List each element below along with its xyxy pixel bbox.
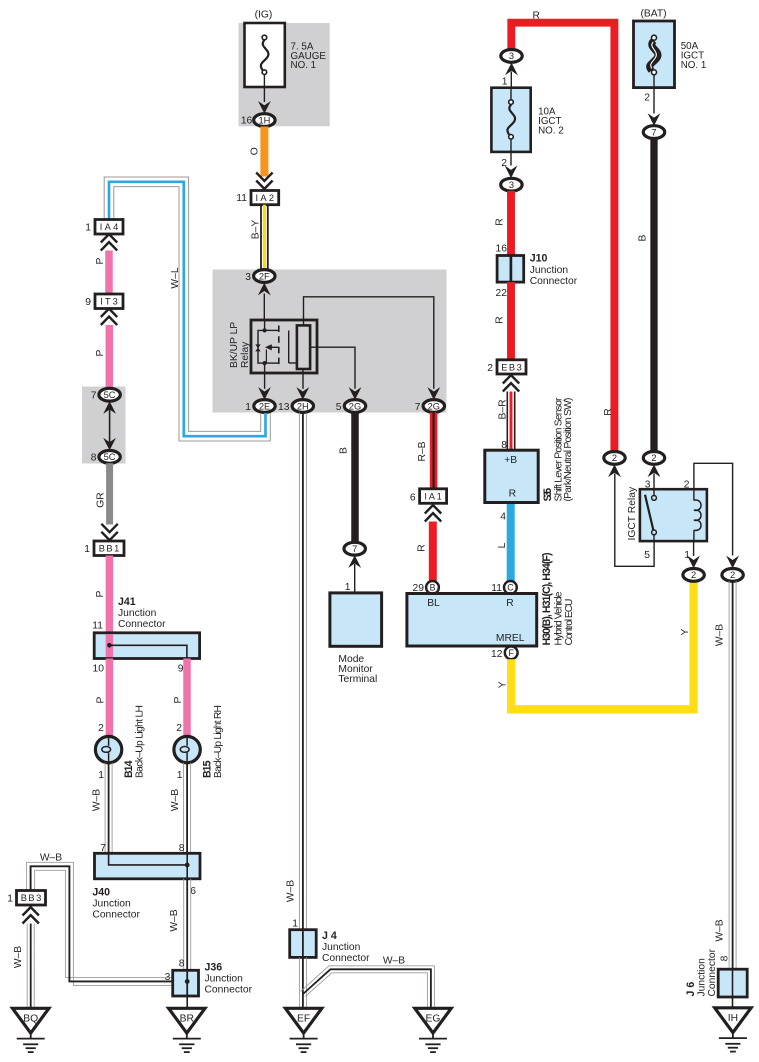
svg-text:5C: 5C <box>104 452 116 462</box>
wire: relay coil bottom to 2H <box>302 369 304 389</box>
svg-text:BQ: BQ <box>23 1013 38 1024</box>
svg-text:B: B <box>339 447 350 454</box>
fuse F2 10A IGCT NO.2 <box>491 88 530 166</box>
connector EB3 <box>497 360 526 374</box>
wire: pink P (IT3 to 5C) <box>106 325 114 388</box>
svg-text:J40: J40 <box>92 887 110 899</box>
wire: W-L (IA4 to 2E) <box>104 177 270 441</box>
svg-text:1: 1 <box>84 544 90 555</box>
svg-text:BL: BL <box>427 598 440 609</box>
svg-text:C: C <box>507 583 514 593</box>
svg-text:P: P <box>173 696 184 703</box>
connector oval 2 (red) <box>604 452 625 465</box>
svg-text:2: 2 <box>730 570 735 580</box>
gray panel: BK/UP LP relay block <box>213 270 447 413</box>
connector oval 2F <box>254 270 275 283</box>
Hybrid Vehicle Control ECU box <box>407 594 537 647</box>
svg-text:R: R <box>495 218 506 225</box>
gray panel: 5C connector block <box>82 387 126 464</box>
svg-text:7: 7 <box>415 402 421 413</box>
svg-text:L: L <box>497 542 508 548</box>
wire: pink P (J41 to B15) <box>183 659 191 737</box>
svg-text:1: 1 <box>292 919 298 930</box>
svg-text:F: F <box>509 648 515 658</box>
junction connector J4 <box>290 930 317 958</box>
svg-text:Control ECU: Control ECU <box>564 599 575 646</box>
svg-text:EG: EG <box>426 1013 441 1024</box>
svg-text:3: 3 <box>509 180 514 190</box>
svg-text:W–B: W–B <box>715 919 726 941</box>
wire: black B (2G pin5 to mode monitor) <box>351 413 359 543</box>
connector oval 5C top <box>99 388 120 401</box>
svg-text:Hybrid Vehicle: Hybrid Vehicle <box>553 591 564 645</box>
wire: oval2 to IGCT relay pin3 <box>653 474 655 498</box>
connector IA1 <box>420 489 447 504</box>
connector BB1 <box>94 541 124 556</box>
svg-text:Connector: Connector <box>530 276 578 287</box>
wire: fusible link output lead <box>653 75 655 114</box>
svg-text:3: 3 <box>509 51 514 61</box>
ground BQ <box>13 1008 49 1052</box>
svg-text:8: 8 <box>720 955 731 961</box>
svg-text:9: 9 <box>85 297 91 308</box>
svg-text:GR: GR <box>96 492 107 507</box>
wire: gray GR (5C to BB1) <box>106 463 113 524</box>
svg-text:1: 1 <box>245 402 251 413</box>
ECU pin circle C <box>504 581 517 594</box>
svg-text:BK/UP LP: BK/UP LP <box>229 322 240 368</box>
junction connector J6 <box>718 969 747 997</box>
svg-text:2H: 2H <box>297 401 309 411</box>
svg-text:Back–Up Light LH: Back–Up Light LH <box>134 705 145 778</box>
svg-text:R: R <box>506 598 513 609</box>
svg-text:16: 16 <box>496 243 508 254</box>
svg-text:5: 5 <box>644 550 650 561</box>
fuse F1 7.5A GAUGE NO.1 <box>245 23 285 87</box>
svg-text:W–B: W–B <box>169 909 180 931</box>
svg-text:J36: J36 <box>205 962 223 974</box>
wire: W-B (2H to J4) <box>299 413 306 930</box>
svg-text:2F: 2F <box>259 271 270 281</box>
svg-text:1: 1 <box>345 582 351 593</box>
svg-text:1: 1 <box>177 770 183 781</box>
svg-text:5: 5 <box>336 402 342 413</box>
wire: B-R (EB3 to S35) <box>507 392 514 451</box>
svg-text:B: B <box>638 234 649 241</box>
svg-text:10: 10 <box>93 664 105 675</box>
connector oval 2 (W-B) <box>722 569 743 582</box>
svg-text:Terminal: Terminal <box>338 674 377 685</box>
svg-text:R: R <box>417 544 428 551</box>
svg-text:Connector: Connector <box>322 953 370 964</box>
ground EG <box>415 1008 451 1052</box>
svg-text:8: 8 <box>91 453 97 464</box>
wire: W-B (J4 to ground EF) <box>299 957 306 1008</box>
wire: W-B (BB3 to J36) <box>27 862 173 985</box>
svg-text:W–L: W–L <box>170 267 181 288</box>
wire: pink P (IA4 to IT3) <box>105 251 113 295</box>
wire: relay pin1 to yellow oval2 <box>693 541 695 556</box>
svg-text:(Park/Neutral Position SW): (Park/Neutral Position SW) <box>563 398 574 502</box>
svg-text:BB3: BB3 <box>21 893 42 903</box>
svg-text:W–B: W–B <box>170 789 181 811</box>
svg-text:Junction: Junction <box>118 608 157 619</box>
svg-text:R: R <box>533 10 540 21</box>
svg-text:6: 6 <box>190 886 196 897</box>
connector oval 2 (black) <box>643 452 664 465</box>
ECU pin circle F <box>505 646 518 659</box>
svg-text:2: 2 <box>691 570 696 580</box>
svg-text:9: 9 <box>178 664 184 675</box>
svg-text:O: O <box>250 147 261 155</box>
svg-text:P: P <box>96 696 107 703</box>
connector oval 1H <box>254 114 275 127</box>
svg-text:H30(B), H31(C), H34(F): H30(B), H31(C), H34(F) <box>541 553 553 646</box>
svg-text:11: 11 <box>92 620 103 631</box>
svg-text:Relay: Relay <box>240 341 251 368</box>
fusible link 50A IGCT NO.1 <box>634 21 675 88</box>
wire: pink P (BB1 to J41) <box>106 556 114 633</box>
svg-text:MREL: MREL <box>496 633 525 644</box>
svg-text:W–B: W–B <box>286 880 297 902</box>
IGCT relay coil <box>694 489 701 541</box>
svg-text:2: 2 <box>684 479 690 490</box>
svg-text:+B: +B <box>504 455 517 466</box>
bulb B15 Back-Up Light RH <box>174 736 200 762</box>
connector oval 7 <box>643 126 664 139</box>
svg-text:(IG): (IG) <box>255 10 273 21</box>
wire: relay pin2 to W-B oval2 <box>694 463 733 555</box>
svg-text:B–R: B–R <box>498 399 509 419</box>
svg-text:3: 3 <box>245 272 251 283</box>
wire: black B (oval7 to IGCT relay) <box>650 139 657 452</box>
wire: relay coil right to 2G(5) <box>310 347 355 389</box>
svg-text:P: P <box>95 257 106 264</box>
svg-text:Connector: Connector <box>205 985 253 996</box>
junction connector J36 <box>173 970 199 996</box>
svg-text:P: P <box>95 590 106 597</box>
svg-text:Junction: Junction <box>205 974 244 985</box>
junction connector J41 <box>94 633 199 659</box>
svg-text:6: 6 <box>410 492 416 503</box>
svg-text:BB1: BB1 <box>99 544 120 554</box>
svg-text:Y: Y <box>680 628 691 635</box>
svg-text:NO. 2: NO. 2 <box>538 126 564 137</box>
svg-text:P: P <box>95 349 106 356</box>
wire: red R (IA1 to ECU pin29) <box>429 522 437 582</box>
ground IH <box>715 1008 751 1052</box>
gray panel: IG fuse block <box>239 23 330 126</box>
svg-text:S35: S35 <box>542 488 554 502</box>
svg-text:2: 2 <box>98 723 104 734</box>
svg-text:2G: 2G <box>428 401 440 411</box>
svg-text:2: 2 <box>176 723 182 734</box>
svg-text:16: 16 <box>241 116 253 127</box>
connector oval 3 top <box>501 50 522 63</box>
connector IA4 <box>95 220 123 235</box>
svg-text:Junction: Junction <box>322 942 361 953</box>
svg-text:B14: B14 <box>123 760 135 778</box>
svg-text:W–B: W–B <box>40 852 62 863</box>
svg-text:2: 2 <box>651 453 656 463</box>
wire: W-B (J40 to J36) <box>184 879 191 970</box>
svg-text:W–B: W–B <box>13 946 24 968</box>
Mode Monitor Terminal box <box>330 593 382 646</box>
wire: red R (oval3 to J10) <box>507 191 515 256</box>
ground BR <box>169 1008 205 1052</box>
svg-text:R: R <box>495 316 506 323</box>
wire: W-B (oval2 to J6) <box>729 581 736 969</box>
svg-text:NO. 1: NO. 1 <box>681 60 707 71</box>
svg-text:R: R <box>603 408 614 415</box>
svg-text:R–B: R–B <box>417 441 428 461</box>
ECU pin circle B <box>426 581 439 594</box>
svg-text:1: 1 <box>7 894 13 905</box>
svg-text:EF: EF <box>297 1013 310 1024</box>
connector oval 2 (yellow) <box>683 569 704 582</box>
BK/UP LP relay R1 <box>251 320 317 373</box>
svg-text:BR: BR <box>180 1013 194 1024</box>
wire: B-Y (IA2 to 2F) <box>261 205 268 270</box>
svg-text:7: 7 <box>651 127 656 137</box>
svg-text:Junction: Junction <box>92 899 131 910</box>
svg-text:J10: J10 <box>530 253 548 265</box>
wire: yellow Y (ECU MREL to IGCT relay pin1) <box>511 581 693 709</box>
svg-text:J 4: J 4 <box>322 930 337 942</box>
svg-text:Y: Y <box>498 681 509 688</box>
S35 Shift Lever Position Sensor box <box>485 450 538 502</box>
svg-text:8: 8 <box>179 958 185 969</box>
connector IT3 <box>95 294 123 309</box>
svg-text:Connector: Connector <box>92 910 140 921</box>
svg-text:11: 11 <box>236 193 247 204</box>
svg-text:1H: 1H <box>258 115 270 125</box>
connector oval 2G pin7 <box>423 400 444 413</box>
connector oval 2G pin5 <box>344 400 365 413</box>
junction connector J40 <box>95 853 201 879</box>
junction connector J10 <box>497 256 524 283</box>
svg-text:J41: J41 <box>118 596 136 608</box>
svg-text:5C: 5C <box>104 390 116 400</box>
svg-text:1: 1 <box>85 222 91 233</box>
svg-text:7: 7 <box>91 390 97 401</box>
wire: orange O (1H to IA2) <box>260 127 268 177</box>
svg-text:1: 1 <box>502 76 508 87</box>
svg-text:B: B <box>430 583 436 593</box>
svg-text:2G: 2G <box>349 401 361 411</box>
svg-text:2: 2 <box>644 92 650 103</box>
svg-text:4: 4 <box>500 512 506 523</box>
svg-text:1: 1 <box>98 770 104 781</box>
wire: W-B (BB3 to ground BQ) <box>27 924 34 1009</box>
connector oval 2H <box>292 400 313 413</box>
svg-text:B15: B15 <box>202 760 214 778</box>
svg-text:22: 22 <box>496 288 508 299</box>
svg-text:2: 2 <box>612 453 617 463</box>
bulb B14 Back-Up Light LH <box>95 736 121 762</box>
svg-text:Connector: Connector <box>707 948 718 996</box>
wire: fuse F1 output lead <box>263 75 265 102</box>
connector oval 2E <box>254 400 275 413</box>
connector oval 3 bottom <box>501 178 522 191</box>
wire: J6 to ground IH <box>732 997 734 1008</box>
svg-text:W–B: W–B <box>92 789 103 811</box>
svg-text:(BAT): (BAT) <box>640 9 666 20</box>
svg-text:EB3: EB3 <box>501 363 522 373</box>
wire: R-B (2G pin7 to IA1) <box>430 413 438 489</box>
svg-text:2E: 2E <box>259 401 270 411</box>
wire: W-B branch (J4 to ground EG) <box>301 966 435 1009</box>
double arrow between 5C halves <box>103 401 116 414</box>
svg-text:R: R <box>509 489 516 500</box>
svg-text:Junction: Junction <box>530 265 569 276</box>
svg-text:2: 2 <box>487 363 493 374</box>
svg-text:IH: IH <box>728 1013 738 1024</box>
svg-text:IGCT Relay: IGCT Relay <box>627 486 638 540</box>
svg-text:13: 13 <box>278 402 290 413</box>
wire: relay contact bottom to 2E <box>264 363 266 389</box>
svg-text:Connector: Connector <box>118 619 166 630</box>
connector oval 5C bottom <box>99 451 120 464</box>
wire: W-B (B15 to J40 pin8) <box>184 763 191 853</box>
wire: red R (J10 to EB3) <box>507 282 515 360</box>
wire: pink P (J41 to B14) <box>106 659 114 737</box>
wire: blue L (S35 to ECU pin11) <box>507 503 515 582</box>
wire: oval2 to IGCT relay pin5 <box>615 474 654 567</box>
ground EF <box>285 1008 321 1052</box>
svg-text:W–B: W–B <box>383 955 405 966</box>
svg-text:Back–Up Light RH: Back–Up Light RH <box>213 705 224 778</box>
svg-text:B–Y: B–Y <box>251 220 262 240</box>
connector BB3 <box>17 891 46 906</box>
svg-text:7: 7 <box>352 544 357 554</box>
svg-text:NO. 1: NO. 1 <box>291 60 317 71</box>
connector oval 7 <box>344 542 365 555</box>
connector IA2 <box>251 191 279 205</box>
svg-text:J 6: J 6 <box>685 982 697 997</box>
svg-text:W–B: W–B <box>715 624 726 646</box>
IGCT relay switch <box>645 489 656 541</box>
wire: J36 to ground BR <box>186 996 188 1008</box>
svg-text:12: 12 <box>491 649 503 660</box>
wire: red R trunk (oval3 up, over, down to IGCT relay) <box>511 23 614 452</box>
wire: relay coil top to 2G(7) <box>304 297 434 389</box>
IGCT relay box <box>640 489 707 541</box>
wire: W-B (B14 to J40 pin7) <box>105 763 112 853</box>
svg-text:Junction: Junction <box>697 958 708 997</box>
